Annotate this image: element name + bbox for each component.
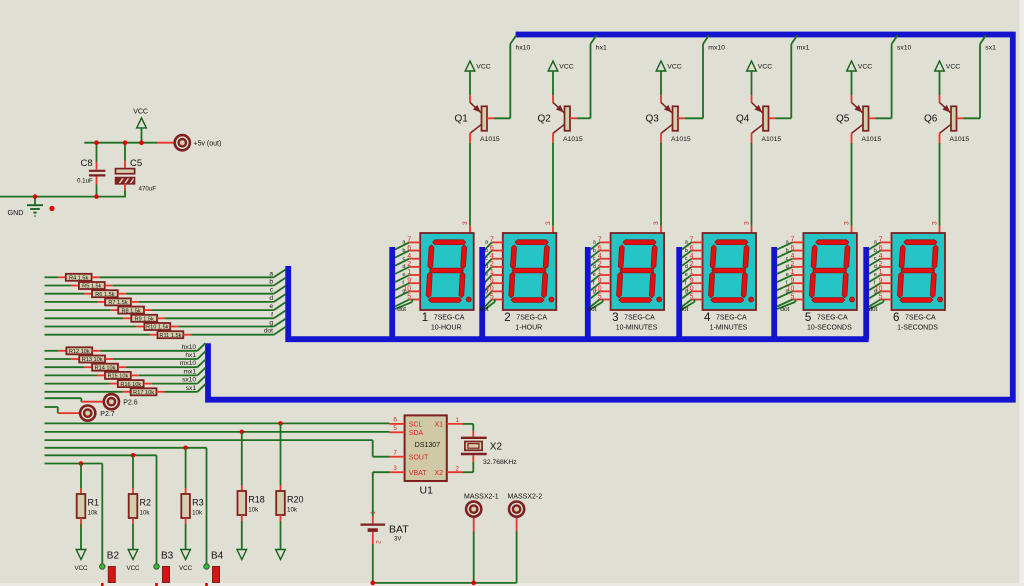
svg-text:mx1: mx1 (184, 368, 197, 375)
svg-text:d: d (485, 264, 488, 270)
svg-text:SCL: SCL (409, 422, 423, 429)
svg-text:A1015: A1015 (480, 136, 500, 143)
svg-text:R13 10k: R13 10k (82, 357, 103, 363)
svg-text:7SEG-CA: 7SEG-CA (905, 314, 936, 321)
svg-text:6: 6 (879, 245, 883, 252)
svg-text:A1015: A1015 (950, 136, 970, 143)
svg-text:b: b (402, 248, 405, 254)
svg-text:VCC: VCC (559, 64, 573, 71)
svg-text:2: 2 (598, 261, 602, 268)
svg-text:c: c (786, 256, 789, 262)
svg-text:4: 4 (490, 253, 494, 260)
svg-text:5: 5 (393, 425, 397, 432)
svg-text:1: 1 (690, 269, 694, 276)
svg-text:c: c (685, 256, 688, 262)
svg-text:3V: 3V (394, 536, 401, 542)
svg-text:1: 1 (598, 269, 602, 276)
svg-text:7: 7 (407, 237, 411, 244)
svg-text:e: e (786, 272, 789, 278)
svg-text:e: e (402, 272, 405, 278)
svg-text:Q5: Q5 (836, 113, 850, 124)
svg-text:0.1uF: 0.1uF (77, 178, 93, 185)
svg-text:5: 5 (407, 294, 411, 301)
svg-text:f: f (271, 311, 273, 318)
svg-text:10k: 10k (248, 507, 259, 514)
svg-text:R7 1.5k: R7 1.5k (108, 300, 127, 306)
svg-text:d: d (786, 264, 789, 270)
svg-text:dot: dot (869, 306, 878, 313)
svg-text:A1015: A1015 (762, 136, 782, 143)
svg-text:3: 3 (744, 221, 751, 225)
svg-text:B2: B2 (107, 551, 120, 562)
svg-text:7: 7 (490, 237, 494, 244)
svg-text:C8: C8 (81, 158, 93, 169)
svg-text:e: e (874, 272, 877, 278)
svg-text:b: b (685, 248, 688, 254)
svg-text:7: 7 (790, 237, 794, 244)
svg-text:dot: dot (264, 328, 273, 335)
svg-text:VCC: VCC (126, 565, 140, 572)
svg-text:dot: dot (397, 306, 406, 313)
svg-text:2: 2 (879, 261, 883, 268)
svg-text:sx10: sx10 (182, 377, 196, 384)
svg-text:3: 3 (844, 221, 851, 225)
svg-text:7: 7 (393, 449, 397, 456)
svg-text:e: e (593, 272, 596, 278)
svg-text:10-SECONDS: 10-SECONDS (807, 325, 852, 332)
svg-text:b: b (269, 279, 273, 286)
svg-text:X2: X2 (434, 470, 443, 477)
svg-text:5: 5 (598, 294, 602, 301)
svg-text:SDA: SDA (409, 430, 424, 437)
svg-text:10-HOUR: 10-HOUR (431, 325, 462, 332)
svg-text:1: 1 (490, 269, 494, 276)
svg-text:b: b (874, 248, 877, 254)
svg-text:6: 6 (790, 245, 794, 252)
svg-text:VCC: VCC (758, 64, 772, 71)
svg-text:Q2: Q2 (538, 113, 552, 124)
svg-text:mx1: mx1 (797, 44, 810, 51)
svg-text:1: 1 (456, 417, 460, 424)
svg-text:9: 9 (598, 277, 602, 284)
svg-text:e: e (485, 272, 488, 278)
svg-text:R9 1.5k: R9 1.5k (135, 317, 154, 323)
svg-text:Q6: Q6 (924, 113, 938, 124)
svg-text:dot: dot (588, 306, 597, 313)
svg-text:4: 4 (879, 253, 883, 260)
svg-text:d: d (269, 295, 273, 302)
svg-text:R17 10k: R17 10k (133, 390, 154, 396)
svg-text:b: b (786, 248, 789, 254)
svg-text:R8 1.5k: R8 1.5k (121, 308, 140, 314)
svg-text:U1: U1 (420, 485, 434, 497)
svg-text:VCC: VCC (858, 64, 872, 71)
svg-text:Q4: Q4 (736, 113, 750, 124)
svg-text:A1015: A1015 (671, 136, 691, 143)
svg-text:7SEG-CA: 7SEG-CA (516, 314, 547, 321)
svg-text:VCC: VCC (476, 64, 490, 71)
svg-text:1: 1 (879, 269, 883, 276)
svg-text:g: g (874, 289, 877, 295)
svg-text:32.768KHz: 32.768KHz (483, 459, 517, 466)
svg-text:VCC: VCC (133, 109, 148, 116)
svg-text:4: 4 (790, 253, 794, 260)
svg-text:Q1: Q1 (455, 113, 469, 124)
svg-text:R11 1.5k: R11 1.5k (159, 333, 181, 339)
svg-text:hx10: hx10 (516, 44, 531, 51)
svg-text:P2.6: P2.6 (123, 400, 138, 407)
svg-text:g: g (685, 289, 688, 295)
svg-text:7: 7 (690, 237, 694, 244)
svg-text:SOUT: SOUT (409, 455, 429, 462)
svg-text:3: 3 (653, 221, 660, 225)
svg-text:5: 5 (805, 312, 811, 324)
svg-text:6: 6 (407, 245, 411, 252)
svg-text:1-SECONDS: 1-SECONDS (897, 325, 938, 332)
svg-text:7SEG-CA: 7SEG-CA (817, 314, 848, 321)
svg-text:c: c (593, 256, 596, 262)
svg-text:5: 5 (790, 294, 794, 301)
svg-text:a: a (269, 270, 273, 277)
svg-text:g: g (485, 289, 488, 295)
svg-text:Q3: Q3 (646, 113, 660, 124)
svg-text:6: 6 (490, 245, 494, 252)
svg-text:10-MINUTES: 10-MINUTES (616, 325, 658, 332)
svg-text:e: e (685, 272, 688, 278)
svg-text:9: 9 (690, 277, 694, 284)
svg-text:d: d (593, 264, 596, 270)
svg-text:P2.7: P2.7 (100, 411, 115, 418)
svg-text:A1015: A1015 (862, 136, 882, 143)
svg-text:9: 9 (490, 277, 494, 284)
svg-text:10k: 10k (192, 510, 203, 517)
svg-text:hx1: hx1 (596, 44, 607, 51)
svg-text:5: 5 (690, 294, 694, 301)
svg-text:dot: dot (780, 306, 789, 313)
svg-text:5: 5 (879, 294, 883, 301)
svg-text:R16 10k: R16 10k (120, 382, 141, 388)
svg-text:9: 9 (407, 277, 411, 284)
svg-text:c: c (485, 256, 488, 262)
svg-text:d: d (874, 264, 877, 270)
svg-text:b: b (485, 248, 488, 254)
svg-text:MASSX2-1: MASSX2-1 (464, 494, 499, 501)
svg-text:c: c (874, 256, 877, 262)
svg-text:sx10: sx10 (897, 44, 912, 51)
svg-text:3: 3 (393, 465, 397, 472)
svg-text:1: 1 (407, 269, 411, 276)
svg-text:mx10: mx10 (180, 360, 196, 367)
svg-text:4: 4 (598, 253, 602, 260)
svg-text:2: 2 (790, 261, 794, 268)
svg-text:1-MINUTES: 1-MINUTES (710, 325, 748, 332)
svg-text:d: d (402, 264, 405, 270)
svg-text:mx10: mx10 (708, 44, 725, 51)
svg-text:g: g (786, 289, 789, 295)
svg-text:MASSX2-2: MASSX2-2 (508, 494, 543, 501)
svg-text:GND: GND (8, 208, 24, 217)
svg-text:sx1: sx1 (985, 44, 996, 51)
svg-text:7SEG-CA: 7SEG-CA (434, 314, 465, 321)
svg-text:R5 1.5k: R5 1.5k (82, 284, 101, 290)
svg-text:1: 1 (422, 312, 428, 324)
svg-text:b: b (593, 248, 596, 254)
svg-text:dot: dot (480, 306, 489, 313)
svg-text:A1015: A1015 (563, 136, 583, 143)
svg-text:R18: R18 (248, 495, 265, 505)
svg-text:R4 1.5k: R4 1.5k (69, 276, 88, 282)
svg-text:dot: dot (680, 306, 689, 313)
svg-text:2: 2 (490, 261, 494, 268)
svg-text:1-HOUR: 1-HOUR (515, 325, 542, 332)
svg-text:10k: 10k (88, 510, 99, 517)
svg-text:R12 10k: R12 10k (69, 349, 90, 355)
svg-text:3: 3 (932, 221, 939, 225)
svg-text:VCC: VCC (74, 565, 88, 572)
svg-text:R14 10k: R14 10k (95, 365, 116, 371)
svg-text:d: d (685, 264, 688, 270)
svg-text:6: 6 (893, 312, 899, 324)
svg-text:9: 9 (879, 277, 883, 284)
svg-text:5: 5 (490, 294, 494, 301)
svg-text:R10 1.5k: R10 1.5k (146, 325, 169, 331)
svg-text:470uF: 470uF (139, 185, 157, 192)
svg-text:7: 7 (598, 237, 602, 244)
svg-text:BAT: BAT (389, 524, 409, 536)
svg-text:2: 2 (690, 261, 694, 268)
svg-text:R1: R1 (88, 498, 100, 508)
svg-text:VCC: VCC (179, 565, 193, 572)
svg-text:DS1307: DS1307 (415, 442, 440, 449)
svg-text:9: 9 (790, 277, 794, 284)
svg-text:10k: 10k (140, 510, 151, 517)
svg-text:3: 3 (612, 312, 618, 324)
svg-text:2: 2 (407, 261, 411, 268)
svg-text:c: c (402, 256, 405, 262)
svg-text:VBAT: VBAT (409, 470, 427, 477)
svg-text:7SEG-CA: 7SEG-CA (624, 314, 655, 321)
svg-text:R6 1.5k: R6 1.5k (95, 292, 114, 298)
svg-text:3: 3 (545, 221, 552, 225)
svg-text:g: g (593, 289, 596, 295)
svg-text:6: 6 (598, 245, 602, 252)
svg-text:2: 2 (504, 312, 510, 324)
svg-text:hx10: hx10 (182, 344, 197, 351)
svg-text:B3: B3 (161, 551, 174, 562)
svg-text:6: 6 (393, 417, 397, 424)
svg-text:+5v (out): +5v (out) (194, 141, 222, 148)
svg-text:sx1: sx1 (186, 385, 197, 392)
svg-text:R15 10k: R15 10k (107, 374, 128, 380)
svg-text:B4: B4 (211, 551, 224, 562)
svg-text:2: 2 (456, 466, 460, 473)
svg-text:10k: 10k (287, 507, 298, 514)
svg-text:R20: R20 (287, 495, 304, 505)
svg-text:g: g (269, 320, 273, 327)
svg-text:X2: X2 (490, 441, 503, 452)
svg-text:R3: R3 (192, 498, 204, 508)
svg-text:g: g (402, 289, 405, 295)
svg-text:4: 4 (704, 312, 711, 324)
svg-text:R2: R2 (140, 498, 152, 508)
svg-text:7SEG-CA: 7SEG-CA (716, 314, 747, 321)
svg-text:4: 4 (690, 253, 694, 260)
svg-text:7: 7 (879, 237, 883, 244)
svg-text:hx1: hx1 (185, 352, 196, 359)
svg-text:C5: C5 (130, 158, 142, 169)
svg-text:6: 6 (690, 245, 694, 252)
svg-text:X1: X1 (434, 422, 443, 429)
svg-text:4: 4 (407, 253, 411, 260)
svg-text:e: e (269, 303, 273, 310)
svg-text:1: 1 (790, 269, 794, 276)
svg-text:3: 3 (462, 221, 469, 225)
svg-text:VCC: VCC (946, 64, 960, 71)
svg-text:VCC: VCC (667, 64, 681, 71)
